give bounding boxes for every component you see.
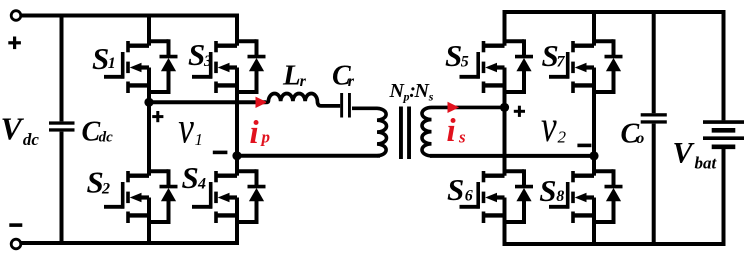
svg-text:S: S [188, 37, 205, 72]
svg-text:L: L [282, 59, 301, 91]
svg-text:S: S [182, 160, 199, 195]
svg-text:4: 4 [197, 176, 206, 193]
svg-text:dc: dc [99, 130, 114, 146]
svg-text:V: V [673, 136, 696, 169]
svg-text:6: 6 [465, 187, 473, 204]
svg-text:2: 2 [558, 128, 567, 147]
svg-text:2: 2 [101, 180, 110, 197]
svg-text:s: s [428, 90, 434, 104]
svg-text:1: 1 [195, 130, 204, 149]
svg-text:V: V [1, 110, 25, 146]
svg-text:5: 5 [461, 53, 469, 70]
svg-text:dc: dc [23, 130, 40, 149]
svg-text:v: v [178, 103, 194, 153]
svg-text:7: 7 [557, 53, 566, 70]
svg-text:r: r [300, 73, 307, 90]
svg-text:S: S [447, 172, 464, 207]
svg-text:1: 1 [108, 55, 116, 72]
svg-text:i: i [250, 115, 260, 151]
svg-text:r: r [348, 73, 355, 90]
svg-text:v: v [541, 101, 557, 151]
svg-text:p: p [260, 128, 271, 147]
svg-text:8: 8 [556, 188, 564, 205]
svg-text:s: s [458, 128, 466, 147]
svg-text:S: S [445, 38, 462, 73]
svg-text:S: S [92, 41, 109, 76]
svg-text:bat: bat [695, 154, 718, 173]
svg-text:o: o [636, 130, 644, 147]
svg-text:S: S [539, 173, 556, 208]
svg-text:3: 3 [203, 53, 212, 70]
svg-text:i: i [447, 113, 457, 149]
